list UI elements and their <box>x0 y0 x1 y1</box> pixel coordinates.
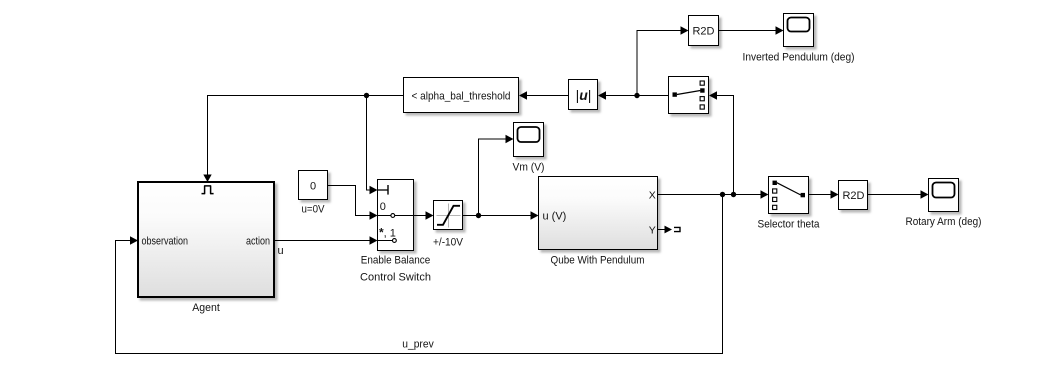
svg-text:R2D: R2D <box>692 26 714 38</box>
svg-text:Inverted Pendulum (deg): Inverted Pendulum (deg) <box>743 52 855 64</box>
svg-text:u: u <box>278 245 284 257</box>
svg-text:u (V): u (V) <box>543 210 567 222</box>
svg-text:0: 0 <box>310 181 316 193</box>
svg-text:Y: Y <box>649 224 656 236</box>
svg-text:Control Switch: Control Switch <box>360 272 431 284</box>
svg-text:0: 0 <box>380 201 386 213</box>
svg-text:R2D: R2D <box>842 190 864 202</box>
svg-text:Agent: Agent <box>192 302 220 314</box>
svg-text:*, 1: *, 1 <box>379 226 396 240</box>
svg-text:Vm (V): Vm (V) <box>513 162 545 174</box>
svg-text:Selector theta: Selector theta <box>758 219 821 231</box>
svg-text:+/-10V: +/-10V <box>433 237 464 249</box>
svg-text:action: action <box>246 235 270 247</box>
svg-text:u=0V: u=0V <box>302 204 326 216</box>
svg-text:u_prev: u_prev <box>402 339 434 351</box>
svg-text:Enable Balance: Enable Balance <box>361 255 431 267</box>
svg-text:< alpha_bal_threshold: < alpha_bal_threshold <box>412 91 511 103</box>
svg-text:X: X <box>649 189 656 201</box>
svg-text:|u|: |u| <box>576 87 592 103</box>
svg-text:Qube With Pendulum: Qube With Pendulum <box>551 255 645 267</box>
svg-text:Rotary Arm (deg): Rotary Arm (deg) <box>906 216 982 228</box>
svg-text:observation: observation <box>142 235 189 247</box>
